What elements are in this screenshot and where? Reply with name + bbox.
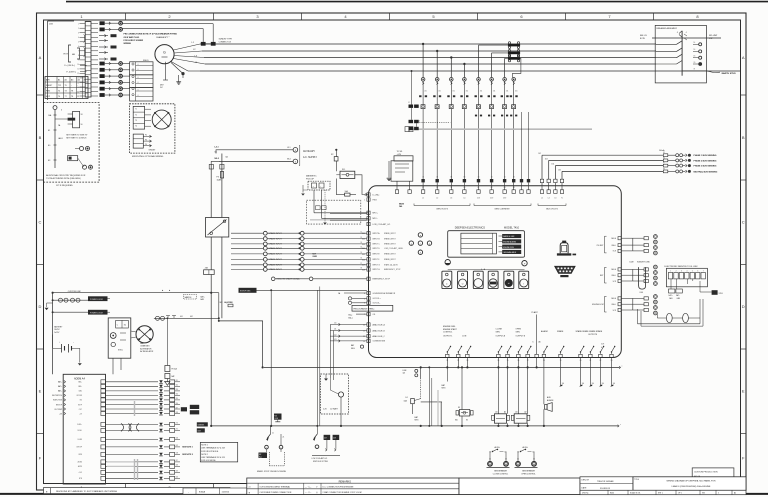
svg-text:SUNDRY LINK: SUNDRY LINK xyxy=(637,261,650,263)
svg-text:412: 412 xyxy=(334,334,337,336)
svg-text:306: 306 xyxy=(592,383,595,385)
svg-text:CONNECT U3: CONNECT U3 xyxy=(219,41,231,43)
svg-text:RTN: RTN xyxy=(79,478,82,480)
main left feed wire xyxy=(52,293,54,375)
svg-text:306: 306 xyxy=(613,383,616,385)
svg-text:▾: ▾ xyxy=(420,251,421,254)
controller top pin cells xyxy=(421,179,424,182)
grey marked wire band xyxy=(411,128,592,130)
svg-text:7: 7 xyxy=(78,51,79,53)
svg-text:9: 9 xyxy=(78,60,79,62)
breaker CB1 chain xyxy=(681,31,683,76)
svg-text:64: 64 xyxy=(513,187,515,189)
svg-text:ALARM: ALARM xyxy=(541,330,548,333)
svg-text:18: 18 xyxy=(81,114,83,116)
svg-text:OUTPUTS: OUTPUTS xyxy=(588,334,598,336)
alarm output drop xyxy=(543,358,545,405)
svg-text:320: 320 xyxy=(176,477,179,479)
svg-text:BF1-/4MP: BF1-/4MP xyxy=(709,35,718,37)
svg-text:L/L1: L/L1 xyxy=(287,147,291,149)
svg-text:1S1: 1S1 xyxy=(515,91,518,93)
svg-text:402: 402 xyxy=(190,316,193,318)
svg-text:T4: T4 xyxy=(58,91,60,93)
svg-text:T9: T9 xyxy=(65,85,67,87)
close open breaker output drops xyxy=(497,358,499,414)
engine harness connectors xyxy=(411,71,413,105)
svg-text:CUSTOM LINK: CUSTOM LINK xyxy=(68,291,82,293)
mx line tag xyxy=(274,414,282,420)
svg-text:5: 5 xyxy=(78,42,79,44)
svg-text:⊕: ⊕ xyxy=(249,491,251,494)
svg-text:2: 2 xyxy=(78,28,79,30)
lamp terminals lower xyxy=(83,165,87,169)
terminal circles top xyxy=(119,21,123,25)
svg-text:1: 1 xyxy=(78,24,79,26)
svg-text:311: 311 xyxy=(176,380,179,382)
svg-text:LEAN I6 (2306/2506/2806) 50Hz: LEAN I6 (2306/2506/2806) 50Hz ENGINE xyxy=(672,485,711,488)
svg-text:N/L2: N/L2 xyxy=(287,158,291,160)
svg-text:14: 14 xyxy=(694,42,696,44)
svg-text:8: 8 xyxy=(78,55,79,57)
svg-text:INJECTION: INJECTION xyxy=(53,400,63,402)
wire bus E xyxy=(200,70,740,72)
svg-text:OPEN: OPEN xyxy=(516,329,522,331)
svg-text:11: 11 xyxy=(77,69,79,71)
wire coil to controller D+ xyxy=(355,175,369,195)
svg-text:16: 16 xyxy=(81,124,83,126)
svg-text:58: 58 xyxy=(360,268,362,270)
plant drop xyxy=(536,358,538,368)
svg-text:OILT: OILT xyxy=(79,409,82,411)
svg-text:LINK TERMINALS 312 & 313: LINK TERMINALS 312 & 313 xyxy=(201,456,224,459)
svg-text:ESTP: ESTP xyxy=(78,404,82,406)
svg-text:14: 14 xyxy=(77,82,79,84)
svg-text:AUXILIARY: AUXILIARY xyxy=(303,150,315,153)
svg-text:BAT+: BAT+ xyxy=(58,381,62,384)
svg-text:12: 12 xyxy=(363,336,365,338)
svg-text:D: D xyxy=(742,304,745,309)
svg-text:T3: T3 xyxy=(135,120,137,122)
svg-text:SET TIMER TO GIVE "B": SET TIMER TO GIVE "B" xyxy=(66,134,88,136)
sundry U link xyxy=(639,267,646,289)
svg-text:NOTE 2: NOTE 2 xyxy=(201,454,208,456)
pickup screen dashed box xyxy=(307,200,361,224)
svg-text:1S: 1S xyxy=(491,177,493,179)
svg-text:SPARE INPUT: SPARE INPUT xyxy=(269,247,283,250)
svg-text:1S: 1S xyxy=(478,177,480,179)
svg-text:306: 306 xyxy=(562,383,565,385)
svg-text:-1: -1 xyxy=(686,32,687,34)
svg-text:1S1: 1S1 xyxy=(453,91,456,93)
svg-text:C: C xyxy=(39,220,42,225)
svg-text:MODEL 7410: MODEL 7410 xyxy=(504,226,520,229)
wire bus L3 xyxy=(204,57,656,59)
svg-text:AUX A: AUX A xyxy=(523,446,529,449)
svg-text:1S: 1S xyxy=(513,177,515,179)
svg-text:A3: A3 xyxy=(71,79,73,82)
timer relay K6 xyxy=(68,118,76,121)
aux supply terminals xyxy=(293,148,298,153)
svg-text:▸: ▸ xyxy=(162,289,163,292)
svg-text:CONTROL: CONTROL xyxy=(443,332,452,334)
breaker control wire through xyxy=(652,37,721,39)
svg-text:SWITCH IF FITTED: SWITCH IF FITTED xyxy=(313,461,329,463)
svg-text:▸: ▸ xyxy=(169,289,170,292)
svg-text:US6: US6 xyxy=(640,292,643,294)
svg-text:SPARE INPUT: SPARE INPUT xyxy=(269,237,283,240)
svg-text:INPUT E: INPUT E xyxy=(373,254,381,256)
svg-text:ADEM A4: ADEM A4 xyxy=(74,377,85,380)
svg-text:OIL TEMP: OIL TEMP xyxy=(54,409,63,411)
svg-text:FIT IF REQUIRED.: FIT IF REQUIRED. xyxy=(56,185,73,187)
svg-text:MPU -: MPU - xyxy=(373,218,378,220)
svg-text:51: 51 xyxy=(360,231,362,233)
svg-text:ENGINE FUEL: ENGINE FUEL xyxy=(443,326,456,328)
custom production block xyxy=(692,468,734,480)
svg-text:INJ: INJ xyxy=(80,400,83,402)
solenoid feed verticals xyxy=(428,367,430,426)
drawing number strip xyxy=(580,490,746,494)
svg-text:EMERGENCY_STOP: EMERGENCY_STOP xyxy=(373,279,391,281)
svg-text:FIELD/CHARGE (XREL): FIELD/CHARGE (XREL) xyxy=(354,308,375,311)
svg-text:6: 6 xyxy=(138,82,139,84)
svg-text:62: 62 xyxy=(491,187,493,189)
svg-text:63: 63 xyxy=(504,187,506,189)
svg-text:C1: C1 xyxy=(489,459,491,461)
start stop round buttons xyxy=(445,260,450,265)
breaker bottom earth wire xyxy=(682,70,706,72)
svg-text:E0: E0 xyxy=(48,145,50,147)
svg-text:302: 302 xyxy=(362,239,365,241)
svg-text:WIRING DIAGRAM OF DEEPSEA 7410: WIRING DIAGRAM OF DEEPSEA 7410 PANEL FOR xyxy=(666,480,716,483)
gen close relay coil xyxy=(495,414,507,423)
svg-text:K9: K9 xyxy=(458,407,460,409)
svg-text:LOW_COOLANT_LEVEL: LOW_COOLANT_LEVEL xyxy=(384,247,403,250)
svg-text:A.C. SUPPLY: A.C. SUPPLY xyxy=(303,156,317,159)
svg-text:306: 306 xyxy=(602,383,605,385)
svg-text:GEN CURRENT: GEN CURRENT xyxy=(494,209,510,211)
svg-text:60: 60 xyxy=(464,187,466,189)
svg-text:NEG: NEG xyxy=(442,388,446,390)
svg-text:SEE NOTE 1: SEE NOTE 1 xyxy=(182,447,193,449)
svg-text:POWER LOOM: POWER LOOM xyxy=(90,313,103,315)
svg-text:1S1: 1S1 xyxy=(466,91,469,93)
svg-text:NEG: NEG xyxy=(415,420,419,422)
ADEM pin cells xyxy=(101,380,106,384)
svg-text:NOT: NOT xyxy=(313,254,316,256)
svg-text:6: 6 xyxy=(138,69,139,71)
svg-text:SPARE INPUT: SPARE INPUT xyxy=(269,243,283,246)
svg-text:ANALOGUE_C: ANALOGUE_C xyxy=(373,335,386,338)
controller left pins charge/mpu xyxy=(367,193,370,196)
svg-text:LOW COOLANT LVL: LOW COOLANT LVL xyxy=(312,457,328,460)
svg-text:401: 401 xyxy=(180,316,183,318)
controller CAN port group 2 xyxy=(618,268,621,271)
svg-text:T8: T8 xyxy=(71,96,73,98)
svg-text:SHT 1: SHT 1 xyxy=(658,493,663,495)
svg-text:GOVERNOR ALTERNATOR: GOVERNOR ALTERNATOR xyxy=(373,292,396,295)
svg-text:C2: C2 xyxy=(533,459,535,461)
svg-text:A: A xyxy=(742,55,745,60)
svg-text:314: 314 xyxy=(176,394,179,396)
svg-text:L1: L1 xyxy=(541,198,543,200)
alternator phase fan wires xyxy=(174,44,201,50)
svg-text:SPARE INPUT: SPARE INPUT xyxy=(269,268,283,271)
svg-text:FOR DROOP MODE.: FOR DROOP MODE. xyxy=(201,451,219,453)
svg-text:1S1: 1S1 xyxy=(480,91,483,93)
relay coil RL1 xyxy=(340,171,355,178)
svg-text:ON 8 WAY PLUG: ON 8 WAY PLUG xyxy=(124,36,140,39)
service tool resistor xyxy=(712,290,718,295)
sheet bottom edge line xyxy=(0,493,768,495)
svg-text:PMG: PMG xyxy=(46,91,51,93)
svg-text:SPARE INPUT: SPARE INPUT xyxy=(269,258,283,261)
pickup screen drop xyxy=(324,190,326,222)
wire WL to controller top pins xyxy=(396,181,398,190)
svg-text:PICK UP: PICK UP xyxy=(306,178,315,180)
svg-text:318: 318 xyxy=(176,412,179,414)
governor rows xyxy=(367,291,370,294)
timer vertical wire xyxy=(53,106,57,110)
low coolant level switch xyxy=(316,426,318,434)
svg-text:ELECTRONIC SERVICE TOOL LIN: ELECTRONIC SERVICE TOOL LINK xyxy=(665,266,699,268)
svg-text:6: 6 xyxy=(697,271,698,273)
spare input rows xyxy=(231,232,263,234)
svg-text:T/LITE ACTIVATED WITH (USE-/ER: T/LITE ACTIVATED WITH (USE-/ERG) xyxy=(46,177,81,180)
aux supply wire N xyxy=(219,160,293,162)
panel terminal strip outline xyxy=(47,21,49,100)
link and fuse F4 branch xyxy=(420,367,422,378)
svg-text:3: 3 xyxy=(78,33,79,35)
svg-text:DEEPSEA ELECTRONICS: DEEPSEA ELECTRONICS xyxy=(455,226,485,229)
svg-text:GEN VOLTS: GEN VOLTS xyxy=(436,209,448,211)
svg-text:T8: T8 xyxy=(71,91,73,93)
svg-text:11: 11 xyxy=(272,433,274,435)
fuse 10A inline xyxy=(345,193,350,196)
svg-text:DATE: DATE xyxy=(582,486,588,489)
wires to sundry connector xyxy=(122,23,213,25)
svg-text:CLOSE: CLOSE xyxy=(496,329,503,331)
svg-text:NOTE 1: NOTE 1 xyxy=(201,445,208,447)
svg-text:317: 317 xyxy=(176,407,179,409)
wire aux feed vertical 1 xyxy=(221,154,223,218)
sensing fuses xyxy=(663,154,668,157)
svg-text:P3: P3 xyxy=(145,139,147,141)
svg-text:T6: T6 xyxy=(58,96,60,98)
svg-text:LINK TERMINALS 317 & 318: LINK TERMINALS 317 & 318 xyxy=(201,447,224,450)
svg-text:SPARE INPUT: SPARE INPUT xyxy=(269,264,283,267)
sheet top edge line xyxy=(66,1,768,3)
svg-text:◂: ◂ xyxy=(411,242,412,245)
svg-text:500mA: 500mA xyxy=(659,149,665,152)
battery earth xyxy=(78,363,82,365)
svg-text:T3: T3 xyxy=(65,91,67,93)
starter motor M1 xyxy=(136,326,153,343)
svg-text:CUSTOM PRODUCTION: CUSTOM PRODUCTION xyxy=(694,471,718,473)
svg-text:INPUT D: INPUT D xyxy=(373,248,381,250)
CT metering drop wires xyxy=(422,44,424,77)
breaker pole blades xyxy=(677,41,683,45)
svg-text:REVISIONS ETC AMENDED TO S: REVISIONS ETC AMENDED TO SUIT STANDARD U… xyxy=(56,490,118,493)
svg-text:315: 315 xyxy=(176,398,179,400)
controller CAN port group 3 xyxy=(618,297,621,300)
svg-text:ENGINE START: ENGINE START xyxy=(443,328,458,331)
ground symbol below alternator xyxy=(178,75,180,82)
svg-text:F- (OM F-): F- (OM F-) xyxy=(67,71,77,73)
svg-text:OPEN CONTROL: OPEN CONTROL xyxy=(521,473,535,475)
aux supply wire L xyxy=(219,149,293,151)
grey analog pair xyxy=(134,459,136,480)
breaker aux contact circles xyxy=(699,43,702,46)
svg-text:POWER LOOM: POWER LOOM xyxy=(90,299,103,301)
svg-text:306: 306 xyxy=(582,383,585,385)
svg-text:10: 10 xyxy=(77,64,79,66)
svg-text:+5V: +5V xyxy=(79,413,82,415)
svg-text:SUNDRY TYPE: SUNDRY TYPE xyxy=(219,39,233,41)
wire bus L1 xyxy=(200,43,656,45)
controller bottom pin cells xyxy=(446,354,449,357)
svg-text:BAT-: BAT- xyxy=(201,298,205,301)
svg-text:LOW_COOLANT_LVL: LOW_COOLANT_LVL xyxy=(373,223,391,226)
svg-text:1: 1 xyxy=(364,199,365,201)
svg-text:FIELD: FIELD xyxy=(143,60,149,62)
svg-text:—〈〈—: —〈〈— xyxy=(305,491,311,494)
PMG exciter circle xyxy=(152,110,171,129)
pin group labels xyxy=(414,205,470,207)
svg-text:E: E xyxy=(694,69,695,71)
wire to rail corner xyxy=(218,293,220,321)
wire aux feed vertical 2 xyxy=(210,164,212,218)
svg-text:SPARE_INPUT: SPARE_INPUT xyxy=(384,237,396,240)
svg-text:307: 307 xyxy=(362,265,365,267)
bus volts pin cells xyxy=(540,179,543,182)
svg-text:INPUT G: INPUT G xyxy=(373,265,381,267)
svg-text:E460: E460 xyxy=(610,493,614,495)
svg-text:—〈〈—: —〈〈— xyxy=(305,485,311,488)
wire below changeover 2 xyxy=(221,237,223,318)
svg-text:+10V: +10V xyxy=(78,472,82,474)
svg-text:A4: A4 xyxy=(78,79,80,82)
earth stud label xyxy=(706,71,720,73)
connector black squares top xyxy=(100,21,105,25)
svg-text:DRN. BY: DRN. BY xyxy=(582,480,590,482)
svg-text:B: B xyxy=(39,135,42,140)
svg-text:31/08/2013: 31/08/2013 xyxy=(600,488,611,490)
pickup screen grounds xyxy=(302,185,304,193)
svg-text:KEYSW: KEYSW xyxy=(77,395,83,397)
twisted pair symbol xyxy=(128,423,131,431)
svg-text:10: 10 xyxy=(363,324,365,326)
controller LCD module xyxy=(448,231,525,258)
aux feed inline connector cells xyxy=(209,164,213,169)
indicator lamps open xyxy=(516,462,521,467)
ADEM row wires and protection xyxy=(106,381,159,383)
svg-text:L2: L2 xyxy=(548,198,550,200)
svg-text:E3: E3 xyxy=(48,160,50,162)
fuel start output drops xyxy=(446,358,448,368)
svg-text:L4: L4 xyxy=(463,198,465,200)
d-sub 9pin connector xyxy=(555,266,576,273)
svg-text:1S1: 1S1 xyxy=(493,91,496,93)
svg-text:E: E xyxy=(742,389,745,394)
svg-text:GLYCOL-: GLYCOL- xyxy=(373,303,381,305)
svg-text:INPUT H: INPUT H xyxy=(373,269,381,271)
svg-text:LINE: LINE xyxy=(275,418,278,420)
remarks box xyxy=(247,478,459,495)
svg-text:L3: L3 xyxy=(554,198,556,200)
mode buttons row xyxy=(442,271,452,288)
svg-text:308: 308 xyxy=(176,453,179,455)
svg-text:EARTH STUD: EARTH STUD xyxy=(722,72,737,75)
dark net tags xyxy=(190,405,199,409)
svg-text:MAINS & GEN: MAINS & GEN xyxy=(503,235,515,238)
svg-text:2 WAY CONNECTOR IN EMER. STOP: 2 WAY CONNECTOR IN EMER. STOP LOOM xyxy=(323,491,362,494)
controller keypad arrows xyxy=(418,233,422,237)
revision date cells xyxy=(183,488,248,494)
usb socket icon xyxy=(560,243,568,254)
svg-text:PHASE 1 BUS SENSING: PHASE 1 BUS SENSING xyxy=(694,154,717,157)
coolant switch wires xyxy=(316,291,318,426)
svg-text:53: 53 xyxy=(360,242,362,244)
svg-text:⌀▿: ⌀▿ xyxy=(249,486,251,489)
magnetic pickup box xyxy=(308,181,330,190)
svg-text:57: 57 xyxy=(422,187,424,189)
svg-text:61: 61 xyxy=(478,187,480,189)
svg-text:5: 5 xyxy=(692,271,693,273)
svg-text:SPARE SPARE SPARE SPARE: SPARE SPARE SPARE SPARE xyxy=(576,330,603,333)
svg-text:1S1: 1S1 xyxy=(424,91,427,93)
CAN loop wiring xyxy=(666,313,672,322)
svg-text:56: 56 xyxy=(360,258,362,260)
svg-text:E: E xyxy=(39,389,42,394)
svg-text:WIRING: WIRING xyxy=(124,43,132,45)
svg-text:ENGINE RUN: ENGINE RUN xyxy=(503,247,514,249)
svg-text:312: 312 xyxy=(176,385,179,387)
svg-text:4: 4 xyxy=(78,37,79,39)
svg-text:MAGNETIC: MAGNETIC xyxy=(306,175,317,178)
svg-text:E/STOP NEG: E/STOP NEG xyxy=(240,291,251,293)
inline bus connector block xyxy=(508,44,520,47)
svg-text:SPARE INPUT: SPARE INPUT xyxy=(269,232,283,235)
svg-text:55: 55 xyxy=(360,252,362,254)
svg-text:A1: A1 xyxy=(58,79,60,82)
upper aux input rows xyxy=(330,213,367,215)
svg-text:L3: L3 xyxy=(450,198,452,200)
ADEM A4 ECU box xyxy=(63,374,105,484)
lamp terminals upper xyxy=(80,147,84,151)
svg-text:A6: A6 xyxy=(539,341,541,344)
svg-text:1S: 1S xyxy=(464,177,466,179)
svg-text:164: 164 xyxy=(551,164,554,166)
svg-text:ANALOGUE_A: ANALOGUE_A xyxy=(373,323,386,326)
field connection ladder xyxy=(130,62,153,75)
svg-text:270: 270 xyxy=(176,423,179,425)
svg-text:P2: P2 xyxy=(145,135,147,137)
HOT bracket marking xyxy=(69,45,72,62)
grey analog horizontals xyxy=(107,461,134,463)
service tool wires down xyxy=(670,279,672,289)
svg-text:OUTPUT A: OUTPUT A xyxy=(496,334,506,337)
svg-text:INPUT F: INPUT F xyxy=(373,259,381,261)
svg-text:319: 319 xyxy=(176,471,179,473)
svg-text:AUX A: AUX A xyxy=(495,446,501,449)
junction dots on buses xyxy=(422,43,424,45)
WL box ground xyxy=(388,161,390,178)
fuel relay diode module xyxy=(461,367,463,409)
svg-text:A: A xyxy=(39,55,42,60)
svg-text:C2: C2 xyxy=(505,459,507,461)
svg-text:305: 305 xyxy=(362,254,365,256)
